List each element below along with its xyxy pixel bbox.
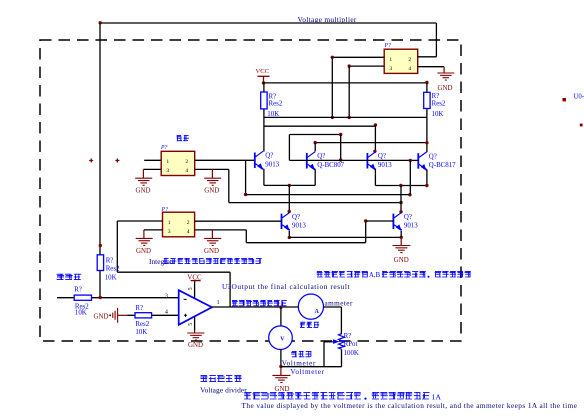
wire P2pin4 link [246,242,365,244]
voltmeter V1 [269,326,293,350]
svg-text:9013: 9013 [292,222,306,229]
op-amp U2 body [179,290,212,325]
wire Q6 collector riser [400,186,402,212]
junction pin3-busA [348,116,351,119]
wire Q1 emitter drop [263,169,265,186]
transistor Q6 9013 [393,212,418,231]
svg-text:1: 1 [168,220,171,226]
transistor Q2 Q-BC807 [307,152,345,171]
label Voltage divider [200,385,247,394]
svg-text:R?: R? [269,93,277,100]
transistor Q5 9013 [282,212,307,231]
junction Q4 base [409,159,412,162]
label U0 net [574,94,584,101]
wire voltmeter top [280,307,282,326]
svg-text:9013: 9013 [265,161,279,168]
ground P1 pin4 [204,169,221,194]
junction busD left [314,141,317,144]
svg-text:5: 5 [188,323,194,326]
wire Q6 base riser [365,221,367,243]
svg-text:Res2: Res2 [106,265,120,272]
wire P2 pin3 [144,229,163,231]
wire P1 pin2 to Q1 base [195,159,255,161]
wire bottom rail [281,366,342,368]
header P3 [384,49,418,73]
svg-text:3: 3 [389,66,392,72]
wire left main vertical [99,23,101,298]
wire ammeter right [324,306,342,308]
svg-text:2: 2 [187,220,190,226]
svg-text:R?: R? [74,286,82,293]
wire pot top riser [340,307,342,334]
wire opamp pin4 [127,314,178,316]
svg-text:1A: 1A [432,392,442,401]
junction emitter link right mid [399,184,402,187]
wire Q5 collector riser [288,185,290,211]
label Voltage multiplier [298,15,357,24]
svg-text:GND: GND [204,248,219,255]
junction emitter link left [288,184,291,187]
junction R3 bottom [99,296,102,299]
no-erc cross 1 [89,159,93,163]
potentiometer R6 RPot [333,333,359,357]
svg-text:U?: U? [222,282,231,291]
svg-text:10K: 10K [432,111,444,118]
wire opamp output [212,306,299,308]
svg-text:4: 4 [185,168,188,174]
junction Q6 emitter [400,236,403,239]
junction P3 pin3 [348,64,351,67]
svg-text:Output the final calculation r: Output the final calculation result [232,282,351,291]
svg-text:4: 4 [165,310,168,316]
svg-text:P?: P? [384,43,392,49]
svg-text:A,B: A,B [369,272,381,279]
svg-text:VCC: VCC [256,68,270,75]
wire P1 pin3 [143,168,161,170]
svg-text:GND: GND [188,342,203,349]
junction Q4 emitter end [425,184,428,187]
wire emitter link left [264,184,315,186]
svg-text:U0-: U0- [574,94,584,101]
junction left res top [99,244,102,247]
wire opamp gnd pin [194,317,196,331]
wire P1pin4 link [229,202,401,204]
label chinese output result [232,300,287,307]
wire top right drop to P3 pin2 [435,23,437,57]
junction top-left [99,21,102,24]
label opamp pin5 top [188,287,194,290]
wire busC drop to base bus [340,135,342,161]
junction busD right [425,141,428,144]
label chinese voltmeter [291,351,311,357]
ground opamp [187,331,204,349]
label P3 designator [384,43,392,49]
svg-text:R?: R? [344,333,352,340]
wire P3 pin1 drop [331,57,333,117]
wire Q1 base drop [245,160,247,194]
svg-text:ammeter: ammeter [325,299,353,307]
wire VCC rail [264,82,427,84]
svg-text:9013: 9013 [404,222,418,229]
svg-text:Q?: Q? [404,214,412,221]
svg-text:10K: 10K [135,329,147,336]
transistor Q4 Q-BC817 [418,152,456,171]
svg-text:P?: P? [160,145,168,151]
header P2 [163,212,195,237]
junction busC right [339,133,342,136]
svg-text:2: 2 [408,57,411,63]
resistor R5 10K gnd [135,305,152,336]
power VCC opamp [187,274,202,282]
svg-text:1: 1 [166,159,169,165]
wire left 10K leads [263,83,265,152]
resistor R2 10K right [424,92,446,118]
svg-text:Q?: Q? [378,153,386,160]
svg-text:R?: R? [106,257,114,264]
wire busC left drop [288,135,290,161]
svg-text:3: 3 [166,168,169,174]
wire voltmeter bottom [280,350,282,367]
ground P2 pin4 [204,230,221,255]
svg-text:The value displayed by the vol: The value displayed by the voltmeter is … [242,401,578,410]
resistor R3 10K vertical [97,255,120,282]
wire Q3 collector riser [374,125,376,151]
ground P1 pin3 [135,169,152,194]
wire dividend input [57,297,179,299]
wire bus A [264,116,427,118]
label ammeter [325,299,353,307]
label english bottom line [242,401,578,410]
label P2 designator [161,207,169,213]
svg-text:GND: GND [136,248,151,255]
wire P1pin4 drop [228,169,230,202]
transistor Q1 9013 [255,151,280,170]
svg-text:1: 1 [217,300,220,306]
svg-text:100K: 100K [344,350,359,357]
label Voltmeter 2 [290,368,324,376]
wire Q6 base [366,220,394,222]
wire right 10K leads [426,83,428,152]
wire Q2 collector riser [314,143,316,152]
ground Q6 emitter [392,231,410,264]
stray dot 2 [580,124,583,127]
junction busB right [374,123,377,126]
ground P3 pin4 [437,67,454,92]
wire feedback horizontal [117,271,230,273]
junction basebus mid [339,158,342,161]
label P1 designator [160,145,168,151]
label chinese beichushu [57,274,82,280]
label chinese chushu [177,136,189,142]
wire P2 pin4 [195,229,247,231]
wire Q4 base drop [409,160,411,194]
wire P1 pin1 [144,159,161,161]
svg-text:4: 4 [187,229,190,235]
junction Q5 collector [288,210,291,213]
wire bus D [315,142,427,144]
svg-text:GND: GND [136,187,151,194]
wire base link horizontal [246,194,411,196]
label chinese ammeter [300,322,319,328]
junction voltmeter tap [279,306,282,309]
ground P2 pin3 [136,230,153,255]
power VCC left [256,68,270,83]
label opamp pin3 [165,293,168,299]
svg-text:RPot: RPot [344,341,358,348]
wire pot wiper [324,341,333,343]
wire P2 pin1 [117,220,162,222]
svg-text:GND: GND [438,85,453,92]
svg-text:Q?: Q? [429,153,437,160]
wire P3 pin1 [332,56,384,58]
wire bus B [264,125,376,127]
wire P2 pin2 to Q5 [195,220,282,222]
stray dot 1 [563,98,566,101]
svg-text:Q?: Q? [317,153,325,160]
wire P2pin4 drop [245,230,247,243]
wire P3 pin3 [349,65,384,67]
no-erc cross 2 [115,159,119,163]
junction Q5 emitter [288,236,291,239]
junction Q1 base drop [244,193,247,196]
junction Q6 base corner [364,219,367,222]
svg-text:Res2: Res2 [269,101,283,108]
svg-text:R?: R? [135,305,143,312]
svg-text:Q?: Q? [265,153,273,160]
label chinese bottom line [244,392,441,402]
junction Q6 collector top [399,210,402,213]
wire P3 pin3 drop [348,66,350,117]
svg-text:3: 3 [168,229,171,235]
svg-text:P?: P? [161,207,169,213]
resistor R1 10K left [261,92,283,118]
wire bus C [289,134,340,136]
svg-text:R?: R? [432,93,440,100]
wire P3 pin4 [418,66,444,68]
label U2 output annotation [222,282,350,291]
junction voltmeter gnd [279,365,282,368]
svg-text:10K: 10K [105,274,117,281]
svg-text:GND: GND [94,313,109,320]
wire P1 pin4 [195,168,229,170]
wire pot bottom [341,350,343,367]
dashed enclosure box [40,40,461,341]
resistor R4 10K input [74,286,91,316]
junction VCC node [262,81,265,84]
ammeter A1 [298,294,323,319]
ground rotated [94,308,128,323]
wire Q5 emitter drop [288,231,290,237]
header P1 [161,151,195,175]
label Voltmeter 1 [282,360,316,368]
label opamp pin5 bottom [188,323,194,326]
svg-text:5: 5 [188,287,194,290]
label opamp pin4 [165,310,168,316]
wire emitter link right [375,185,427,187]
svg-text:1: 1 [389,57,392,63]
junction Q6 collector tap [399,201,402,204]
junction pin1-busA [331,116,334,119]
label opamp pin1 [217,300,220,306]
svg-text:10K: 10K [75,310,87,317]
junction P3 pin1 [331,56,334,59]
svg-text:4: 4 [408,66,411,72]
svg-text:Q-BC817: Q-BC817 [429,162,456,169]
svg-text:9013: 9013 [378,162,392,169]
wire wiper drop [323,342,325,367]
wire Q4 emitter drop [426,170,428,186]
svg-text:3: 3 [165,293,168,299]
svg-text:Res2: Res2 [432,100,446,107]
svg-text:Voltage divider: Voltage divider [200,385,247,394]
svg-text:Q-BC807: Q-BC807 [317,162,344,169]
svg-text:Voltage multiplier: Voltage multiplier [298,15,357,24]
svg-text:GND: GND [204,187,219,194]
junction Q3 collector [373,150,376,153]
ground voltmeter [272,366,290,393]
svg-text:Q?: Q? [292,214,300,221]
label chinese divider function [317,271,471,279]
junction base link right [408,193,411,196]
wire emitter gnd link [289,236,401,238]
label Integrate annotation [149,257,262,266]
wire Q2 emitter drop [314,169,316,185]
wire opamp vcc pin [194,281,196,298]
label chinese voltage divider [200,375,241,382]
wire P3 pin2 [418,56,437,58]
wire P2pin1 drop [116,221,118,272]
svg-text:Res2: Res2 [135,321,149,328]
svg-text:2: 2 [185,159,188,165]
svg-text:GND: GND [394,257,409,264]
wire Q3 emitter drop [374,169,376,185]
wire feedback drop [229,272,231,307]
svg-text:Voltmeter: Voltmeter [290,368,324,376]
wire base bus Q2-Q4 [289,159,418,161]
wire top bus [100,22,436,24]
junction R-right top [425,81,428,84]
transistor Q3 9013 [367,152,392,171]
